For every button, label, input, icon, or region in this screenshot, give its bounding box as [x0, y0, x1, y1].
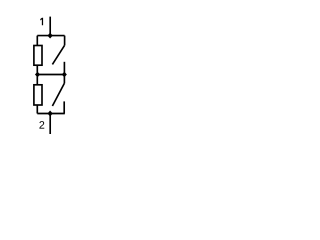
switch S1 bottom contact stub	[63, 62, 65, 75]
wire bottom rail	[37, 113, 65, 115]
terminal 1 wire	[49, 17, 51, 36]
switch S2 bottom contact stub	[63, 101, 65, 113]
wire R1 to middle node	[36, 65, 38, 74]
node bottom junction dot	[47, 111, 52, 117]
switch S1 top contact stub	[64, 36, 66, 46]
wire R2 to bottom rail	[36, 105, 38, 114]
node right middle junction dot	[62, 72, 67, 78]
terminal 2 wire	[49, 114, 51, 135]
switch S2 top contact stub	[63, 75, 65, 84]
resistor R1	[34, 46, 42, 66]
wire middle rail	[37, 74, 64, 76]
node left middle junction dot	[35, 72, 40, 78]
pin label 1	[40, 18, 43, 25]
wire top rail	[37, 35, 64, 37]
wire middle node to R2	[36, 75, 38, 85]
pin label 2	[39, 121, 44, 129]
wire left drop to R1	[36, 36, 38, 46]
switch S2 blade	[52, 83, 64, 106]
resistor R2	[34, 85, 42, 105]
switch S1 blade	[52, 45, 64, 64]
node top junction dot	[47, 33, 52, 39]
